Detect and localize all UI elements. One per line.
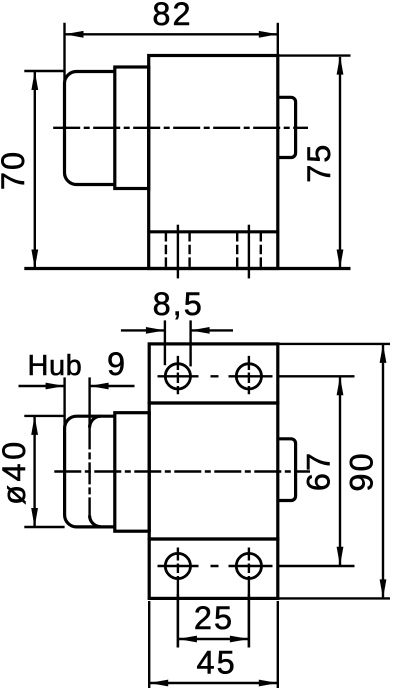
dimension Hub 9 (63, 377, 65, 430)
dimension 75 (278, 54, 351, 56)
svg-text:75: 75 (301, 143, 337, 183)
dimension 25 (177, 594, 179, 648)
svg-text:9: 9 (107, 346, 127, 382)
bottom strip (bottom view) (149, 539, 278, 598)
dimension 45 (148, 601, 150, 688)
hole bottom-left (bottom view) (165, 553, 190, 578)
plunger stroke position arcs (90, 416, 101, 427)
dimension 90 (278, 343, 390, 345)
dimension 8,5 (164, 320, 166, 365)
svg-text:Hub: Hub (28, 350, 83, 382)
main body outline (top view) (149, 56, 278, 269)
hidden hole lines right (top view) (236, 232, 238, 268)
center line (bottom view) (54, 470, 310, 472)
hole row center line bottom (bottom view) (158, 565, 355, 567)
dimension 67 (339, 376, 341, 566)
flange plate (bottom view) (149, 344, 278, 403)
button bump (top view) (278, 97, 296, 157)
dimension diameter 40 (24, 415, 64, 417)
dimension 70 (24, 70, 64, 72)
svg-text:45: 45 (197, 645, 237, 681)
hole row center line top (bottom view) (158, 375, 355, 377)
plunger rounded body (bottom view) (65, 416, 115, 527)
svg-text:82: 82 (152, 0, 192, 32)
svg-text:8,5: 8,5 (153, 286, 204, 322)
hole top-right (bottom view) (236, 364, 261, 389)
baseline extension (top view bottom) (24, 267, 350, 270)
center line (top view) (53, 127, 308, 129)
hidden hole lines left (top view) (165, 232, 167, 268)
hole center line left (top view) (177, 225, 179, 279)
svg-text:90: 90 (343, 451, 379, 491)
middle section (top view) (115, 67, 149, 189)
svg-text:70: 70 (0, 150, 31, 190)
main body (bottom view) (149, 403, 278, 539)
dimension 82 (63, 23, 65, 90)
hole top-left (bottom view) (165, 364, 190, 389)
svg-text:67: 67 (301, 451, 337, 491)
svg-text:25: 25 (194, 600, 234, 636)
hole bottom-right (bottom view) (236, 553, 261, 578)
flange line (top view) (149, 230, 278, 233)
middle section (bottom view) (115, 413, 149, 532)
svg-text:ø40: ø40 (0, 438, 32, 505)
plunger stroke position dash-dot edge (88, 427, 90, 515)
connector rounded body (top view) (65, 72, 116, 185)
button bump (bottom view) (278, 439, 296, 501)
hole center line right (top view) (248, 225, 250, 279)
